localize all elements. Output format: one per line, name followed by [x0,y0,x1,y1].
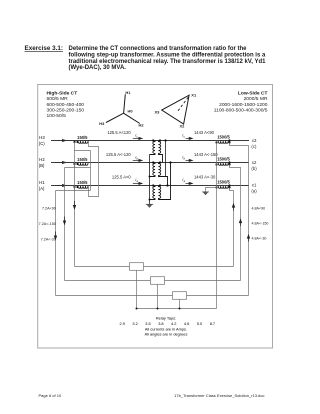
svg-text:(b): (b) [251,166,257,171]
relay bus junction dots [136,308,181,310]
wire: x2 CT lead to relay line 2 [230,165,241,281]
arrow on H3 line [57,139,66,186]
svg-text:H2: H2 [39,157,45,162]
wire: cross vertical x=90.5 [90,151,92,191]
CT CT1 high-side 150/5 secondary coil (phase C line) [78,141,88,143]
transformer T1 phase-a secondary winding + wire to x2 node [159,163,171,200]
wire: delta long vertical from x3 [165,141,167,177]
svg-text:17b_Transformer Class Exercise: 17b_Transformer Class Exercise_Solution_… [174,393,264,398]
svg-text:H1: H1 [39,180,45,185]
wire: phase line H1-x1 [51,185,249,187]
svg-text:Determine the CT connections a: Determine the CT connections and transfo… [69,46,248,52]
svg-text:(Wye-DAC), 30 MVA.: (Wye-DAC), 30 MVA. [69,65,127,71]
svg-text:X1: X1 [191,93,197,98]
svg-text:(c): (c) [251,144,257,149]
svg-text:600/5 MR: 600/5 MR [47,96,69,102]
CT CT3 high-side 150/5 secondary coil (phase A line) [78,186,88,188]
CT CT6 low-side 1500/5 secondary coil (x1 line) [218,186,228,188]
svg-text:300-250-200-150: 300-250-200-150 [47,107,85,113]
svg-text:High-Side CT: High-Side CT [47,91,78,97]
wire: relay bottom bus [137,308,217,310]
wire: relay element drops [136,270,138,309]
svg-text:150/5: 150/5 [77,135,88,140]
polarity dots CT1 [73,141,78,143]
svg-text:7.2A<-150: 7.2A<-150 [39,222,56,226]
ground (low-side CT neutral) [202,188,216,196]
polarity dots CT6 [215,184,230,188]
svg-text:125.5 A<120: 125.5 A<120 [107,130,131,135]
low-side CT ratings text block [214,91,268,114]
svg-text:x3: x3 [252,138,257,143]
transformer T1 phase-C primary winding (wye) [150,141,156,155]
CT CT5 low-side 1500/5 secondary coil (x2 line) [218,163,228,165]
ground symbol (wye neutral) [146,204,153,208]
node H3 winding junctions on phase C line [152,139,167,141]
svg-text:4.8A<-150: 4.8A<-150 [252,221,269,225]
svg-text:following step-up transformer.: following step-up transformer. Assume th… [69,53,266,59]
wire: r1 left lead down [75,142,91,151]
Ic Ib Ia small arrows before transformer [135,132,138,183]
relay element 2 [151,277,165,285]
svg-text:H3: H3 [99,121,105,126]
Ic Ib Ia small arrows after transformer [182,132,185,183]
transformer T1 phase-B primary winding (wye) [150,163,156,177]
node H2 winding junctions on phase B line [152,161,172,163]
low-side CT secondary wiring [217,143,249,309]
transformer T1 phase-c secondary winding + wire to x2 node [159,141,163,163]
wire: relay line 2 [65,280,241,282]
svg-text:(A): (A) [39,186,45,191]
svg-text:traditional electromechanical: traditional electromechanical relay. The… [69,59,267,65]
wire: r1 right lead to long loop [89,141,99,197]
node N wye neutral junctions [149,176,151,201]
CT CT2 high-side 150/5 secondary coil (phase B line) [78,163,88,165]
svg-text:Page 6 of 10: Page 6 of 10 [39,393,62,398]
polarity dots CT4 [215,139,230,143]
wire: wye neutral bus [149,155,151,205]
wire: neutral return vertical [216,143,218,309]
svg-text:H3: H3 [39,135,45,140]
current labels right of transformer [194,130,218,180]
svg-text:X3: X3 [155,110,161,115]
wire: relay lead 1 [74,151,76,267]
labels 7.2A left [39,206,56,241]
transformer T1 phase-A primary winding (wye) [150,186,156,200]
transformer T1 phase-b secondary winding + wire to x1 node [159,163,168,186]
wire: phase line H2-x2 [51,162,249,164]
wire: x3 CT lead to relay line 3 [230,143,249,296]
svg-text:(C): (C) [39,141,45,146]
svg-text:7.2A<90: 7.2A<90 [42,206,56,210]
svg-text:100-50/5: 100-50/5 [47,113,67,119]
svg-text:H1: H1 [125,90,131,95]
down arrows on left relay leads [54,201,75,239]
wire: relay line 3 [56,295,249,297]
polarity dots CT5 [215,161,230,165]
svg-text:125.5 A<0: 125.5 A<0 [112,175,131,180]
svg-text:7.2A<-30: 7.2A<-30 [41,237,56,241]
svg-text:125.5 A<-120: 125.5 A<-120 [106,152,131,157]
wire: relay lead 3 [55,191,57,296]
node H1 winding junctions on phase A line [152,184,169,186]
wire: relay lead 2 [64,168,66,281]
wire: x1 CT lead to relay line 1 [230,188,234,267]
high-side CT ratings text block [47,91,85,119]
high-side CT delta interconnection wires [56,141,99,296]
svg-text:2000-1600-1500-1200: 2000-1600-1500-1200 [219,102,268,108]
up arrows on right relay leads [232,204,249,242]
svg-text:x1: x1 [252,183,257,188]
svg-text:1443 A<-150: 1443 A<-150 [194,152,218,157]
svg-text:1100-800-500-400-300/5: 1100-800-500-400-300/5 [214,107,268,113]
svg-text:4.8A<-30: 4.8A<-30 [252,237,267,241]
figure border box [38,85,273,349]
svg-text:4.8A<90: 4.8A<90 [252,206,266,210]
relay element 1 [130,263,144,271]
wire: phase line H3-x3 [51,140,249,142]
svg-text:Low-Side CT: Low-Side CT [238,91,268,97]
svg-text:Exercise 3.1:: Exercise 3.1: [25,45,64,52]
polarity dots CT3 [73,186,78,188]
delta phasor symbol [162,95,189,124]
relay element 3 [173,292,187,300]
CT CT4 low-side 1500/5 secondary coil (x3 line) [218,141,228,143]
svg-text:150/5: 150/5 [77,157,88,162]
svg-text:H0: H0 [128,109,134,114]
svg-text:1500/5: 1500/5 [217,156,230,161]
svg-text:All currents are in Amps.: All currents are in Amps. [145,326,187,331]
relay operate circuit lines [56,267,249,309]
svg-text:2000/5 MR: 2000/5 MR [244,96,268,102]
wire: node3 horizontal [56,187,91,191]
svg-text:1443 A<-30: 1443 A<-30 [194,175,216,180]
labels 4.8A right [252,206,269,240]
svg-text:1500/5: 1500/5 [217,134,230,139]
svg-text:150/5: 150/5 [77,180,88,185]
phase line end labels x3 (c), x2 (b), x1 (a) [251,138,257,193]
relay taps text block [120,316,216,337]
svg-text:Relay Taps:: Relay Taps: [156,316,176,321]
svg-text:x2: x2 [252,160,257,165]
svg-text:1500/5: 1500/5 [217,179,230,184]
svg-text:(a): (a) [251,188,257,193]
delta dashed phasor line [178,97,189,111]
wire: relay line 1 [75,266,234,268]
polarity dots CT2 [73,163,78,165]
svg-text:1443 A<90: 1443 A<90 [194,130,215,135]
svg-text:All angles are in degrees: All angles are in degrees [145,332,188,337]
wye phasor symbol H0 [106,94,140,123]
current labels left of transformer [106,130,131,180]
svg-text:H2: H2 [139,123,145,128]
svg-text:(B): (B) [39,163,45,168]
svg-text:X2: X2 [180,124,186,129]
phase line labels left: H3 (C), H2 (B), H1 (A) [39,135,46,191]
svg-text:600-500-450-400: 600-500-450-400 [47,102,85,108]
wire: node2 horizontal [65,164,91,168]
